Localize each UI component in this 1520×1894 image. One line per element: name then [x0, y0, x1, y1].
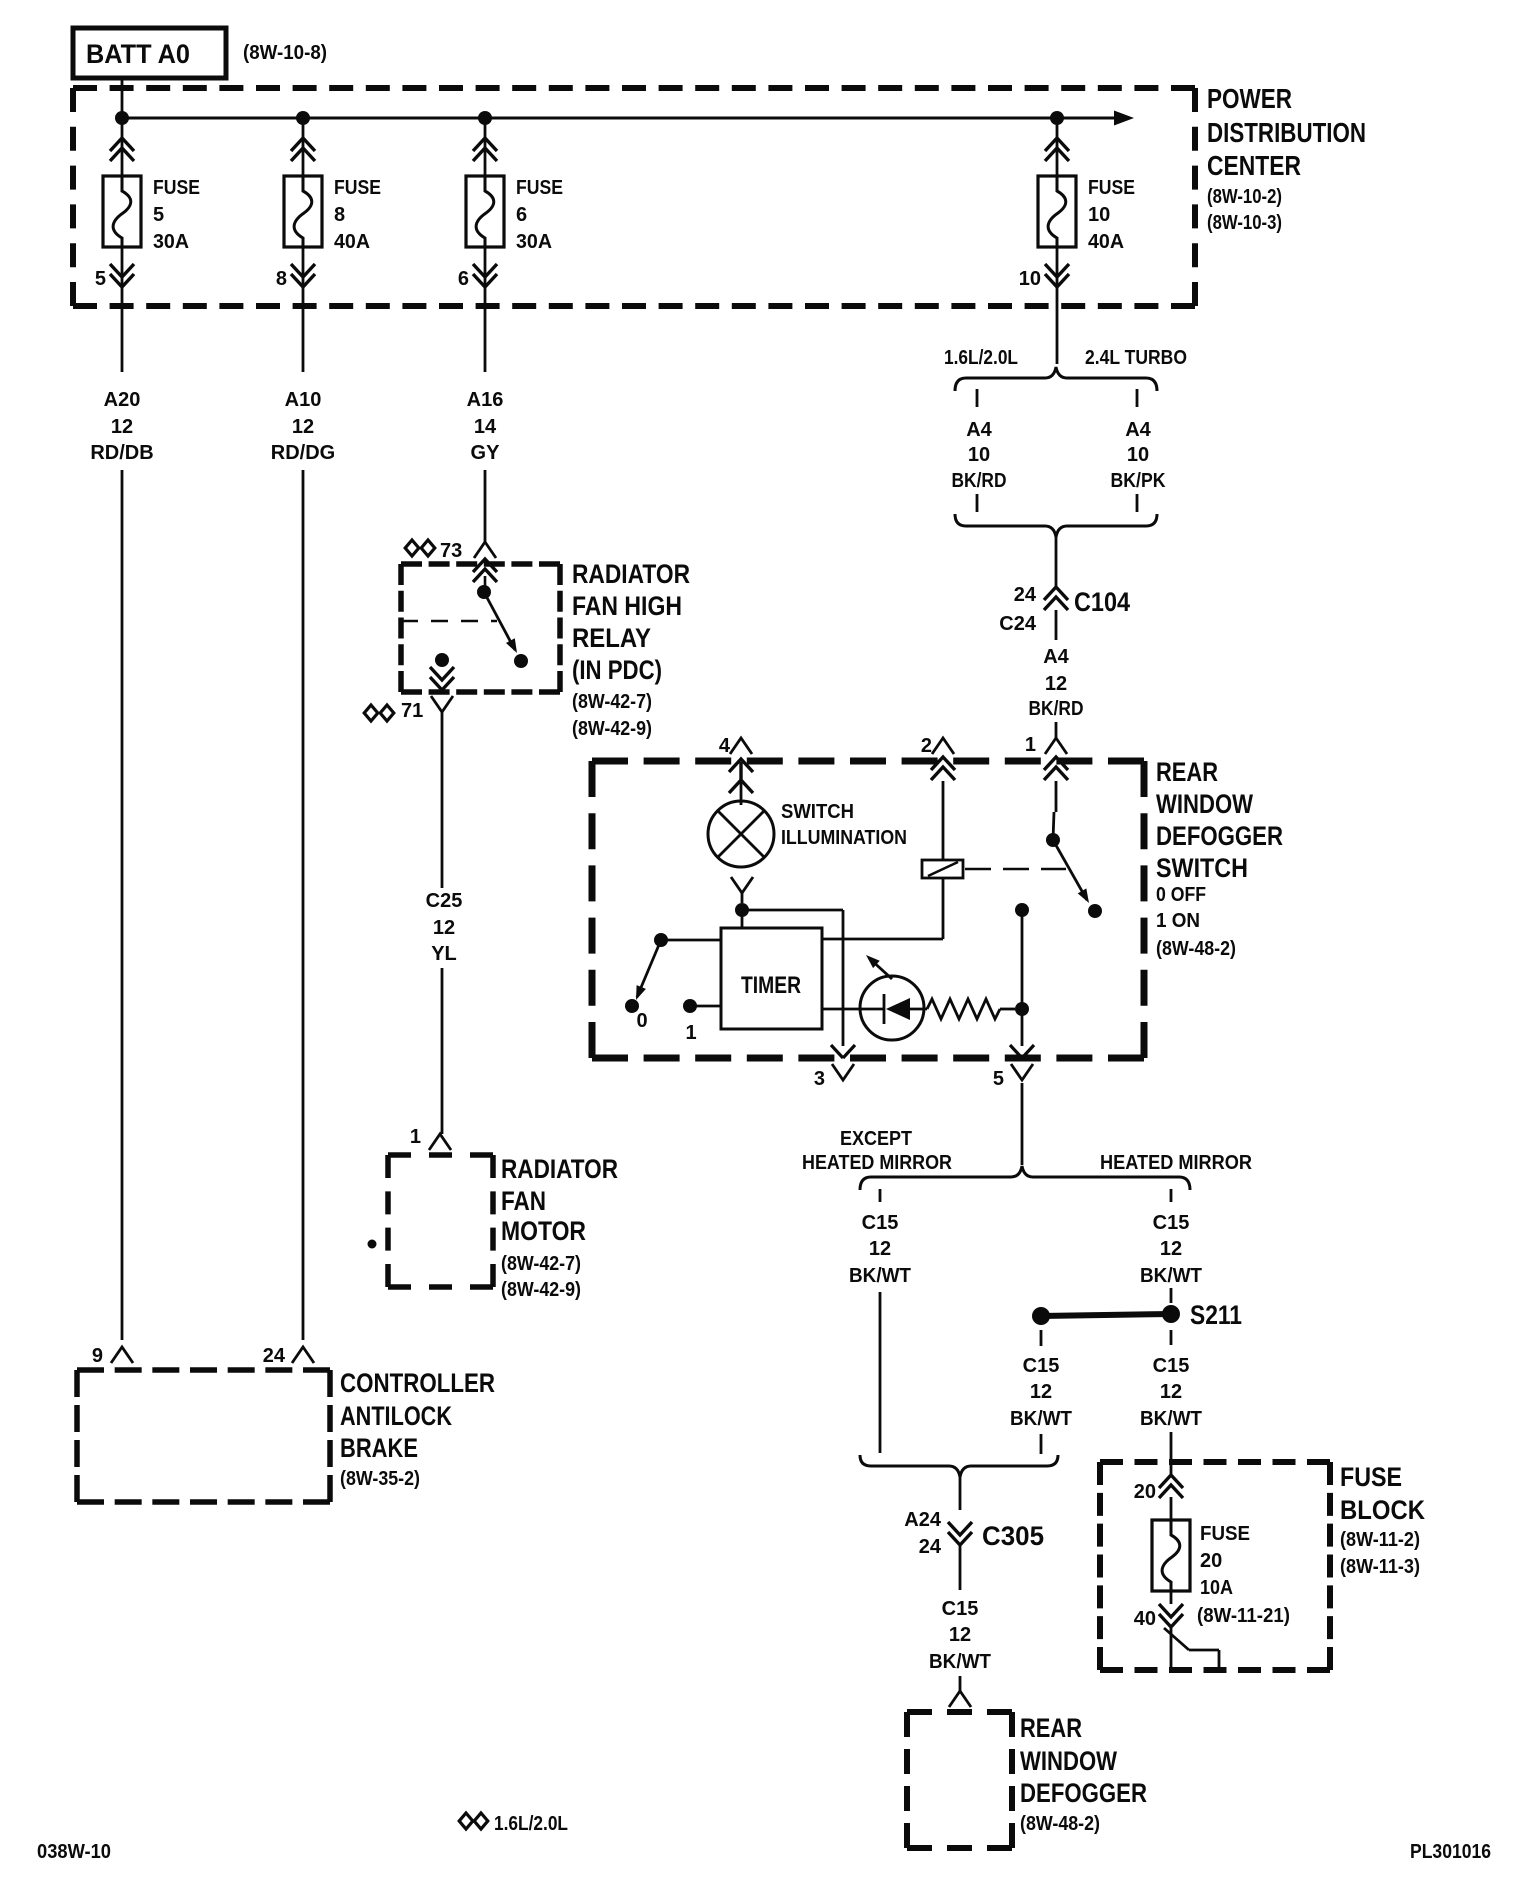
svg-text:FUSE: FUSE — [1200, 1523, 1250, 1545]
svg-text:(8W-42-9): (8W-42-9) — [501, 1279, 581, 1301]
svg-text:FUSE: FUSE — [153, 177, 200, 199]
svg-text:S211: S211 — [1190, 1300, 1242, 1330]
svg-text:HEATED MIRROR: HEATED MIRROR — [802, 1152, 952, 1174]
svg-text:C15: C15 — [1153, 1355, 1190, 1377]
svg-text:TIMER: TIMER — [741, 972, 801, 999]
svg-text:0: 0 — [636, 1010, 647, 1032]
svg-text:(8W-48-2): (8W-48-2) — [1020, 1813, 1100, 1835]
svg-text:5: 5 — [95, 268, 106, 290]
svg-text:RADIATOR: RADIATOR — [501, 1154, 618, 1184]
svg-text:1.6L/2.0L: 1.6L/2.0L — [494, 1813, 568, 1835]
svg-text:C25: C25 — [426, 890, 463, 912]
svg-text:12: 12 — [292, 416, 314, 438]
svg-text:CENTER: CENTER — [1207, 150, 1301, 181]
svg-text:73: 73 — [440, 540, 462, 562]
svg-text:1.6L/2.0L: 1.6L/2.0L — [944, 347, 1018, 369]
svg-text:(8W-10-8): (8W-10-8) — [243, 42, 327, 64]
svg-text:BK/WT: BK/WT — [1140, 1265, 1202, 1287]
svg-text:C15: C15 — [862, 1212, 899, 1234]
svg-text:1 ON: 1 ON — [1156, 910, 1200, 932]
svg-text:FUSE: FUSE — [1340, 1462, 1402, 1492]
svg-text:GY: GY — [471, 442, 501, 464]
svg-text:30A: 30A — [516, 231, 552, 253]
svg-text:(IN PDC): (IN PDC) — [572, 655, 662, 685]
svg-text:REAR: REAR — [1156, 757, 1218, 787]
svg-text:6: 6 — [458, 268, 469, 290]
svg-text:BK/WT: BK/WT — [1140, 1408, 1202, 1430]
svg-text:A4: A4 — [1125, 419, 1151, 441]
svg-text:BLOCK: BLOCK — [1340, 1495, 1425, 1525]
svg-text:12: 12 — [1160, 1381, 1182, 1403]
svg-text:10: 10 — [1127, 444, 1149, 466]
svg-text:24: 24 — [263, 1345, 286, 1367]
svg-text:40A: 40A — [1088, 231, 1124, 253]
svg-text:MOTOR: MOTOR — [501, 1216, 586, 1246]
svg-text:10A: 10A — [1200, 1577, 1233, 1599]
svg-text:12: 12 — [1030, 1381, 1052, 1403]
svg-text:12: 12 — [1045, 673, 1067, 695]
svg-text:A4: A4 — [1043, 646, 1069, 668]
svg-text:POWER: POWER — [1207, 83, 1292, 114]
svg-text:REAR: REAR — [1020, 1713, 1082, 1743]
svg-text:12: 12 — [869, 1238, 891, 1260]
svg-text:10: 10 — [1088, 204, 1110, 226]
svg-text:10: 10 — [968, 444, 990, 466]
svg-text:14: 14 — [474, 416, 497, 438]
svg-text:8: 8 — [276, 268, 287, 290]
svg-text:A20: A20 — [104, 389, 141, 411]
svg-text:ILLUMINATION: ILLUMINATION — [781, 827, 907, 849]
svg-text:EXCEPT: EXCEPT — [840, 1128, 912, 1150]
svg-text:3: 3 — [814, 1068, 825, 1090]
svg-text:SWITCH: SWITCH — [781, 801, 854, 823]
svg-text:5: 5 — [153, 204, 164, 226]
svg-text:4: 4 — [719, 735, 731, 757]
svg-text:(8W-10-2): (8W-10-2) — [1207, 186, 1282, 208]
svg-text:BK/RD: BK/RD — [952, 470, 1007, 492]
svg-text:8: 8 — [334, 204, 345, 226]
svg-text:FUSE: FUSE — [516, 177, 563, 199]
svg-text:(8W-11-2): (8W-11-2) — [1340, 1529, 1420, 1551]
svg-text:20: 20 — [1134, 1481, 1156, 1503]
svg-text:24: 24 — [919, 1536, 942, 1558]
svg-text:FAN HIGH: FAN HIGH — [572, 591, 682, 621]
svg-text:CONTROLLER: CONTROLLER — [340, 1368, 495, 1398]
svg-text:2: 2 — [921, 735, 932, 757]
svg-text:RD/DB: RD/DB — [90, 442, 153, 464]
svg-text:40A: 40A — [334, 231, 370, 253]
svg-text:1: 1 — [1025, 734, 1036, 756]
svg-text:2.4L TURBO: 2.4L TURBO — [1085, 347, 1187, 369]
svg-text:6: 6 — [516, 204, 527, 226]
svg-text:PL301016: PL301016 — [1410, 1841, 1491, 1863]
svg-text:038W-10: 038W-10 — [37, 1841, 111, 1863]
svg-text:5: 5 — [993, 1068, 1004, 1090]
svg-text:BK/WT: BK/WT — [1010, 1408, 1072, 1430]
svg-text:(8W-42-7): (8W-42-7) — [572, 691, 652, 713]
svg-text:A10: A10 — [285, 389, 322, 411]
svg-text:RD/DG: RD/DG — [271, 442, 335, 464]
svg-text:C305: C305 — [982, 1521, 1044, 1551]
svg-text:SWITCH: SWITCH — [1156, 853, 1248, 883]
svg-text:RADIATOR: RADIATOR — [572, 559, 690, 589]
svg-text:ANTILOCK: ANTILOCK — [340, 1401, 452, 1431]
svg-text:20: 20 — [1200, 1550, 1222, 1572]
svg-text:(8W-42-7): (8W-42-7) — [501, 1253, 581, 1275]
svg-text:0 OFF: 0 OFF — [1156, 884, 1206, 906]
svg-text:12: 12 — [1160, 1238, 1182, 1260]
svg-text:BK/PK: BK/PK — [1111, 470, 1166, 492]
svg-text:A24: A24 — [904, 1509, 942, 1531]
svg-text:(8W-48-2): (8W-48-2) — [1156, 938, 1236, 960]
svg-text:C15: C15 — [1023, 1355, 1060, 1377]
svg-text:FUSE: FUSE — [334, 177, 381, 199]
svg-text:12: 12 — [433, 917, 455, 939]
svg-text:DEFOGGER: DEFOGGER — [1020, 1778, 1147, 1808]
svg-text:(8W-11-21): (8W-11-21) — [1197, 1605, 1290, 1627]
svg-text:A4: A4 — [966, 419, 992, 441]
svg-text:12: 12 — [949, 1624, 971, 1646]
svg-text:(8W-11-3): (8W-11-3) — [1340, 1556, 1420, 1578]
svg-text:C15: C15 — [942, 1598, 979, 1620]
svg-text:DEFOGGER: DEFOGGER — [1156, 821, 1283, 851]
svg-text:BRAKE: BRAKE — [340, 1433, 418, 1463]
svg-text:C15: C15 — [1153, 1212, 1190, 1234]
svg-text:C24: C24 — [999, 613, 1037, 635]
svg-text:1: 1 — [685, 1022, 696, 1044]
svg-text:RELAY: RELAY — [572, 623, 651, 653]
svg-text:FAN: FAN — [501, 1186, 546, 1216]
svg-text:(8W-35-2): (8W-35-2) — [340, 1468, 420, 1490]
svg-text:BK/WT: BK/WT — [849, 1265, 911, 1287]
svg-text:1: 1 — [410, 1126, 421, 1148]
svg-text:YL: YL — [431, 943, 457, 965]
svg-text:12: 12 — [111, 416, 133, 438]
svg-text:C104: C104 — [1074, 587, 1130, 617]
svg-text:40: 40 — [1134, 1608, 1156, 1630]
svg-text:WINDOW: WINDOW — [1020, 1746, 1117, 1776]
svg-text:BK/WT: BK/WT — [929, 1651, 991, 1673]
svg-text:HEATED MIRROR: HEATED MIRROR — [1100, 1152, 1253, 1174]
svg-text:(8W-42-9): (8W-42-9) — [572, 718, 652, 740]
svg-text:BATT A0: BATT A0 — [86, 39, 190, 69]
svg-text:71: 71 — [401, 700, 423, 722]
svg-text:A16: A16 — [467, 389, 504, 411]
svg-text:9: 9 — [92, 1345, 103, 1367]
svg-text:WINDOW: WINDOW — [1156, 789, 1253, 819]
svg-text:(8W-10-3): (8W-10-3) — [1207, 212, 1282, 234]
svg-text:30A: 30A — [153, 231, 189, 253]
svg-text:24: 24 — [1014, 584, 1037, 606]
svg-text:10: 10 — [1019, 268, 1041, 290]
svg-text:FUSE: FUSE — [1088, 177, 1135, 199]
svg-text:DISTRIBUTION: DISTRIBUTION — [1207, 117, 1366, 148]
svg-text:BK/RD: BK/RD — [1029, 698, 1084, 720]
